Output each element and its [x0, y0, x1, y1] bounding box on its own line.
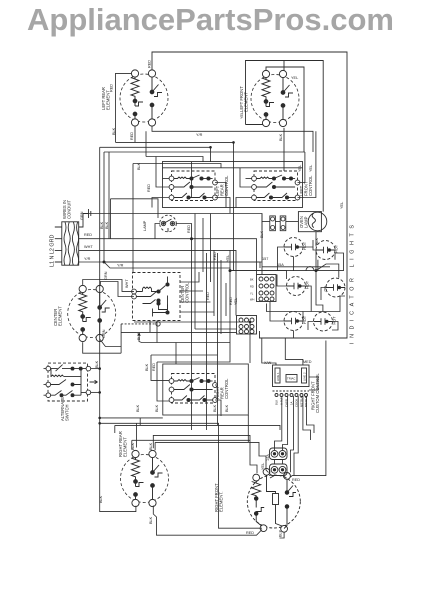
- wire h213: [88, 214, 262, 275]
- svg-text:GRN: GRN: [104, 271, 108, 280]
- wire left front control right leads: [298, 152, 305, 183]
- right rear control: [169, 374, 217, 404]
- svg-text:CHPR: CHPR: [285, 399, 289, 407]
- wire custom control drops: [275, 396, 282, 450]
- svg-text:RED: RED: [206, 292, 210, 300]
- connector block 2: [237, 316, 257, 335]
- svg-text:RED: RED: [152, 363, 156, 371]
- svg-text:RED: RED: [187, 225, 191, 233]
- wire bundle h 152: [104, 151, 305, 153]
- svg-text:BLK: BLK: [275, 400, 279, 405]
- wire h260: [104, 261, 262, 263]
- svg-text:YEL: YEL: [291, 76, 298, 80]
- svg-text:RD: RD: [250, 285, 254, 289]
- svg-text:ON: ON: [324, 286, 328, 292]
- wire left N riser: [108, 152, 110, 239]
- svg-text:RED: RED: [147, 184, 151, 192]
- right front custom control: [273, 365, 310, 397]
- wire center element to control: [83, 280, 134, 292]
- wire inner top: [163, 167, 303, 169]
- alternate switch: [46, 363, 98, 401]
- svg-text:ORN: ORN: [102, 329, 106, 338]
- svg-text:157: 157: [262, 257, 268, 261]
- wire left rear control right leads: [215, 183, 226, 208]
- svg-text:BLK: BLK: [149, 516, 153, 524]
- svg-text:LINE 2: LINE 2: [303, 372, 307, 381]
- wire Y/R diagonal: [104, 262, 230, 271]
- wire h416 stub: [100, 417, 163, 419]
- svg-text:CUSTOM CONTROL: CUSTOM CONTROL: [315, 373, 320, 413]
- wire v226: [225, 283, 227, 316]
- svg-text:L1 N L2 GRD: L1 N L2 GRD: [50, 235, 56, 267]
- center control: [132, 273, 180, 321]
- wire long left trunk: [100, 147, 103, 511]
- wire h263: [262, 266, 330, 268]
- right rear element: [121, 450, 169, 506]
- indicator light 3 HOT: [287, 277, 306, 296]
- indicator light 1 HOT: [284, 238, 303, 257]
- svg-text:Y/R: Y/R: [117, 264, 124, 268]
- svg-text:MSTR B: MSTR B: [304, 396, 308, 407]
- indicator light 6 HOT: [314, 312, 333, 331]
- svg-text:1A: 1A: [290, 401, 294, 405]
- svg-text:BLK: BLK: [315, 237, 319, 245]
- svg-text:TRIAC: TRIAC: [287, 377, 295, 381]
- wire h238: [79, 239, 257, 275]
- wire bundle h 147: [100, 147, 211, 162]
- svg-text:HOT: HOT: [303, 315, 307, 324]
- wire right front elem top right: [291, 341, 326, 478]
- svg-text:15A: 15A: [277, 263, 284, 267]
- svg-text:BLK: BLK: [100, 221, 104, 229]
- wire: second top loop: [246, 61, 324, 212]
- svg-text:HOT: HOT: [306, 280, 310, 289]
- svg-text:WHT: WHT: [125, 279, 129, 288]
- left rear element: [120, 70, 168, 126]
- svg-text:BLK: BLK: [279, 529, 283, 537]
- wire fuse area: [270, 216, 276, 231]
- wire v195: [194, 214, 196, 330]
- svg-text:RED: RED: [110, 84, 114, 92]
- ground symbol: [79, 209, 91, 227]
- wire h262: [79, 262, 260, 268]
- wire stair to plugs: [248, 442, 268, 472]
- svg-text:YL: YL: [250, 292, 254, 296]
- svg-text:YEL: YEL: [234, 298, 238, 305]
- indicator light 5 HOT: [284, 312, 303, 331]
- label custom control pins: [275, 396, 309, 407]
- wire left front control left leads: [246, 178, 252, 180]
- wire v206: [206, 253, 208, 430]
- svg-text:HOT: HOT: [303, 241, 307, 250]
- left front control: [252, 171, 300, 201]
- wire box corner drop: [247, 415, 249, 442]
- wire arrow riser: [139, 337, 230, 343]
- wire left front elem bottom right BLK: [283, 128, 285, 171]
- wire indicator area: [278, 247, 285, 271]
- junction dots: [98, 141, 317, 425]
- wire right rear elem top right riser: [153, 435, 257, 473]
- wire right rear elem bottom: [153, 506, 262, 536]
- wire right rear control right leads: [215, 384, 218, 386]
- svg-text:RED: RED: [229, 297, 233, 305]
- wire alternate switch leads: [44, 368, 47, 370]
- wire v210: [210, 214, 212, 283]
- control outer box: [163, 162, 303, 208]
- svg-text:RED: RED: [292, 478, 300, 482]
- wire center control right leads: [180, 272, 199, 282]
- wire h425: [115, 425, 280, 430]
- wire h442: [155, 441, 248, 443]
- wire h250: [79, 250, 236, 315]
- svg-text:RED: RED: [213, 252, 217, 260]
- wire h425 left: [114, 425, 116, 433]
- svg-text:YEL: YEL: [261, 463, 265, 470]
- svg-text:LAMP: LAMP: [304, 216, 309, 228]
- center element: [68, 285, 116, 341]
- svg-text:Y/R: Y/R: [196, 133, 203, 137]
- svg-text:LAMP: LAMP: [143, 220, 147, 231]
- right rear control outer box: [163, 364, 249, 415]
- wire custom control line2: [309, 377, 318, 390]
- plug pair 1: [270, 448, 288, 460]
- svg-text:CONTROL: CONTROL: [224, 378, 229, 399]
- wire left rear element bottom right Y/R: [152, 126, 313, 152]
- oven lamp: [298, 212, 326, 232]
- wire v230: [229, 250, 231, 334]
- svg-text:MED: MED: [303, 360, 312, 364]
- svg-text:BLK: BLK: [137, 162, 141, 170]
- svg-text:WH: WH: [250, 298, 254, 302]
- svg-text:BLK: BLK: [213, 404, 217, 412]
- svg-text:RED: RED: [130, 132, 134, 140]
- wire h332: [121, 331, 236, 333]
- svg-text:BLK: BLK: [131, 442, 135, 450]
- svg-text:YEL: YEL: [226, 255, 230, 262]
- wire center control bottom drops: [149, 321, 151, 333]
- svg-text:SWITCH: SWITCH: [65, 404, 70, 421]
- wire left front elem bottom left: [246, 124, 263, 126]
- wire v217: [217, 253, 219, 425]
- svg-text:ELEMENT: ELEMENT: [58, 306, 63, 326]
- wire right rear element box: [100, 423, 262, 528]
- svg-text:BLK: BLK: [155, 404, 159, 412]
- svg-text:BK: BK: [250, 278, 254, 282]
- svg-text:BLK: BLK: [279, 133, 283, 141]
- svg-text:YEL: YEL: [240, 112, 244, 119]
- svg-text:ELEMENT.: ELEMENT.: [219, 492, 224, 512]
- svg-text:BLK: BLK: [145, 363, 149, 371]
- svg-text:RED: RED: [246, 531, 254, 535]
- power cord block: [55, 222, 79, 266]
- svg-text:CONTROL: CONTROL: [224, 175, 229, 196]
- svg-text:LINE 1: LINE 1: [276, 372, 280, 381]
- wire bundle h 156: [145, 131, 147, 156]
- wire bundle h 142: [116, 142, 234, 270]
- wire custom control top: [262, 338, 276, 365]
- wire oven light leads: [111, 199, 159, 218]
- svg-text:ELEMENT: ELEMENT: [244, 92, 249, 112]
- svg-text:HOT: HOT: [333, 316, 337, 325]
- svg-text:RED: RED: [84, 233, 92, 237]
- wire v214: [213, 250, 215, 316]
- watermark header: [27, 2, 394, 38]
- svg-text:COOK: COOK: [295, 399, 299, 407]
- svg-text:BLK: BLK: [149, 442, 153, 450]
- svg-text:HOT: HOT: [335, 244, 339, 253]
- wire bundle h 159: [146, 157, 203, 163]
- svg-text:INDICATOR LIGHTS: INDICATOR LIGHTS: [350, 225, 356, 344]
- wire h329: [195, 328, 237, 330]
- indicator light 2 HOT: [316, 241, 335, 260]
- svg-text:BLK: BLK: [99, 495, 103, 503]
- wire left front elem TR riser: [283, 61, 285, 71]
- wire: third top loop: [266, 67, 304, 152]
- right front element: [247, 468, 300, 532]
- svg-text:CONTROL: CONTROL: [308, 175, 313, 196]
- svg-text:BLK: BLK: [105, 221, 109, 229]
- svg-text:WHT: WHT: [84, 245, 93, 249]
- svg-text:YEL: YEL: [298, 165, 302, 172]
- wire bundle h 163: [132, 164, 135, 273]
- svg-text:RED: RED: [148, 60, 152, 68]
- wire left rear element top left: [116, 73, 132, 142]
- svg-text:ELEMENT: ELEMENT: [123, 437, 128, 457]
- left rear control: [169, 171, 217, 201]
- svg-text:14A: 14A: [266, 454, 270, 461]
- label custom control line1 line2: [276, 372, 307, 381]
- svg-text:BLK: BLK: [260, 230, 264, 238]
- svg-text:GRN: GRN: [80, 211, 84, 220]
- wire left L1 riser: [103, 152, 105, 262]
- wire left rear element bottom left: [134, 126, 136, 143]
- svg-text:Y/R: Y/R: [84, 257, 91, 261]
- svg-text:BLK: BLK: [112, 127, 116, 135]
- svg-text:CONDUIT: CONDUIT: [67, 199, 72, 219]
- wire v151: [151, 355, 169, 380]
- connector block 1: [257, 275, 277, 302]
- wire h322: [134, 322, 250, 334]
- svg-text:BLK: BLK: [95, 360, 99, 368]
- wire sensor lead: [121, 323, 155, 325]
- left front element: [251, 70, 299, 126]
- svg-text:YEL: YEL: [340, 202, 344, 209]
- wire: outer border top and right: [152, 52, 347, 338]
- wire v221: [220, 260, 222, 334]
- svg-text:BLK: BLK: [137, 332, 141, 340]
- svg-text:BLK: BLK: [225, 404, 229, 412]
- wire center element bottom right jog: [100, 339, 121, 346]
- wire v203: [202, 218, 204, 272]
- plug pair 2: [270, 464, 288, 476]
- label connector pins: [250, 278, 254, 302]
- indicator light 4 ON: [326, 278, 345, 297]
- svg-text:BLK: BLK: [136, 404, 140, 412]
- wire plug to element: [274, 460, 276, 465]
- oven light switch: [160, 215, 177, 232]
- svg-text:YEL: YEL: [309, 165, 313, 172]
- wire bundle h 163b: [133, 164, 221, 169]
- wire right front element bottom right: [280, 532, 285, 538]
- wire v157: [157, 362, 169, 401]
- svg-text:A-PLT: A-PLT: [280, 397, 284, 405]
- wire h440: [132, 439, 250, 441]
- wire right rear elem top left riser: [136, 423, 138, 447]
- svg-text:MSTR A: MSTR A: [300, 396, 304, 407]
- wire v191: [191, 162, 193, 198]
- svg-text:CONTROL: CONTROL: [185, 282, 190, 303]
- svg-text:X/W: X/W: [264, 361, 272, 365]
- wire center element bottom left: [83, 342, 121, 353]
- wire left rear control left leads: [163, 178, 170, 180]
